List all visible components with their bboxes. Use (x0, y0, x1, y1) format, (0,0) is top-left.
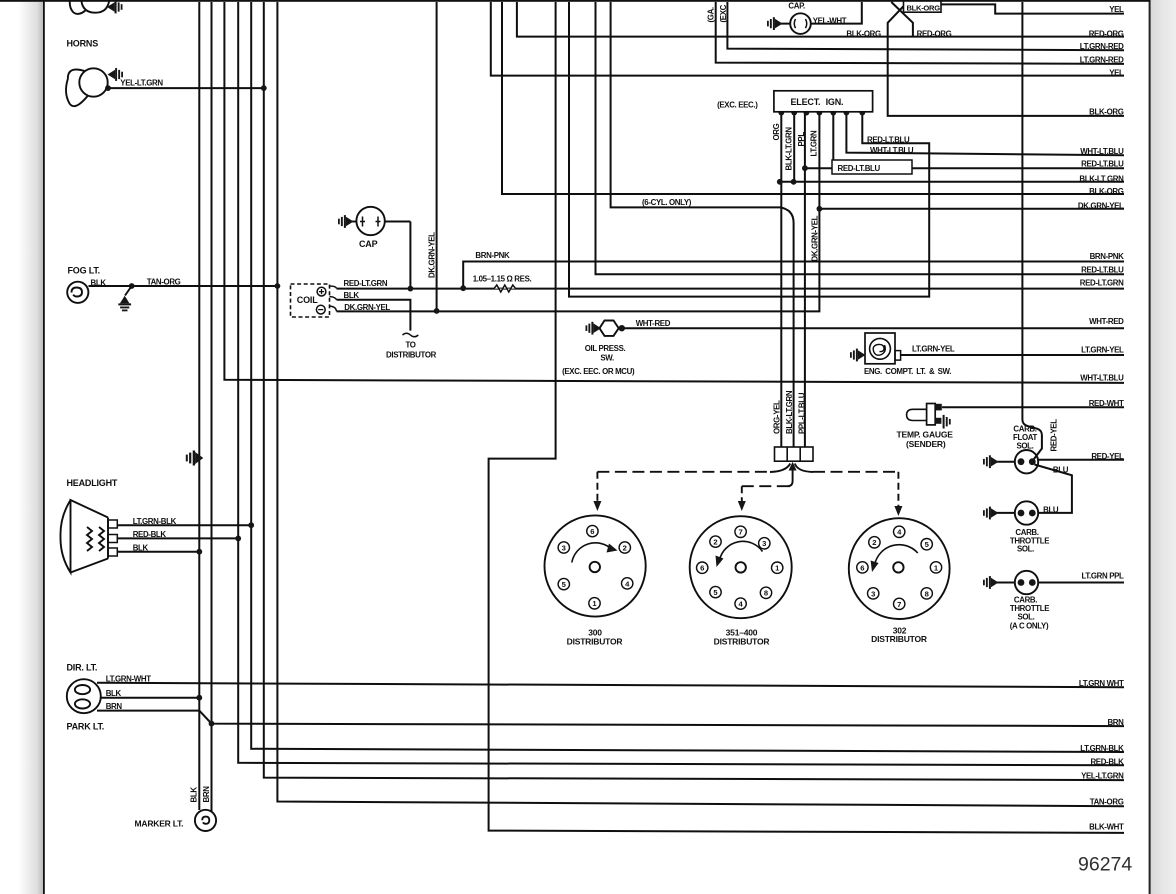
svg-text:BRN: BRN (202, 786, 211, 803)
svg-text:8: 8 (764, 589, 768, 598)
svg-text:BLK: BLK (91, 278, 107, 287)
svg-text:1.05–1.15 Ω RES.: 1.05–1.15 Ω RES. (473, 275, 532, 284)
svg-text:(EXC: (EXC (719, 4, 728, 22)
svg-text:BLK-ORG: BLK-ORG (1089, 187, 1124, 196)
svg-text:BRN-PNK: BRN-PNK (475, 251, 510, 260)
svg-text:BRN-PNK: BRN-PNK (1090, 252, 1125, 261)
svg-text:2: 2 (872, 538, 876, 547)
svg-text:ORG: ORG (772, 123, 781, 140)
svg-text:PPL-LT.BLU: PPL-LT.BLU (797, 392, 806, 434)
svg-text:3: 3 (562, 543, 566, 552)
svg-text:BRN: BRN (106, 702, 123, 711)
svg-text:BLK-LT.GRN: BLK-LT.GRN (785, 127, 794, 171)
svg-text:(EXC. EEC.): (EXC. EEC.) (717, 101, 758, 110)
svg-text:WHT-LT.BLU: WHT-LT.BLU (1080, 147, 1124, 156)
svg-text:TAN-ORG: TAN-ORG (147, 278, 181, 287)
svg-text:RED-ORG: RED-ORG (1089, 29, 1124, 38)
svg-text:RED-LT.GRN: RED-LT.GRN (1080, 279, 1124, 288)
svg-text:BLK-LT GRN: BLK-LT GRN (1079, 175, 1124, 184)
svg-text:3: 3 (762, 539, 766, 548)
svg-text:8: 8 (925, 589, 929, 598)
svg-text:RED-LT.BLU: RED-LT.BLU (1081, 265, 1124, 274)
svg-text:YEL-LT.GRN: YEL-LT.GRN (120, 79, 163, 88)
svg-text:COIL: COIL (297, 295, 318, 305)
svg-text:PARK LT.: PARK LT. (67, 721, 105, 731)
svg-text:OIL PRESS.: OIL PRESS. (585, 344, 626, 353)
svg-text:LT.GRN-YEL: LT.GRN-YEL (912, 344, 955, 353)
svg-text:YEL: YEL (1109, 5, 1124, 14)
svg-text:RED-YEL: RED-YEL (1091, 452, 1124, 461)
svg-text:DISTRIBUTOR: DISTRIBUTOR (871, 634, 927, 644)
svg-text:BLK: BLK (106, 689, 122, 698)
svg-text:DK.GRN-YEL: DK.GRN-YEL (428, 232, 437, 278)
svg-text:PPL: PPL (797, 132, 806, 147)
svg-text:TAN-ORG: TAN-ORG (1090, 797, 1124, 806)
svg-text:LT.GRN-RED: LT.GRN-RED (1080, 56, 1124, 65)
svg-text:DISTRIBUTOR: DISTRIBUTOR (567, 636, 623, 646)
svg-text:(EXC. EEC. OR MCU): (EXC. EEC. OR MCU) (562, 367, 635, 376)
svg-text:FOG LT.: FOG LT. (68, 265, 100, 275)
svg-text:CAP: CAP (359, 239, 378, 249)
svg-text:ELECT. IGN.: ELECT. IGN. (791, 97, 844, 107)
svg-text:LT.GRN-YEL: LT.GRN-YEL (1081, 346, 1124, 355)
svg-text:LT.GRN PPL: LT.GRN PPL (1082, 572, 1124, 581)
svg-text:TO: TO (405, 341, 415, 350)
svg-text:RED-LT.BLU: RED-LT.BLU (867, 135, 910, 144)
svg-text:YEL-LT.GRN: YEL-LT.GRN (1081, 771, 1124, 780)
svg-text:RED-LT.BLU: RED-LT.BLU (838, 164, 881, 173)
svg-text:CARB.: CARB. (1013, 424, 1036, 433)
svg-text:BLK: BLK (344, 291, 360, 300)
svg-text:6: 6 (860, 563, 864, 572)
svg-text:RED-BLK: RED-BLK (133, 530, 167, 539)
svg-text:BLK-LT.GRN: BLK-LT.GRN (785, 390, 794, 434)
svg-text:LT.GRN-BLK: LT.GRN-BLK (1080, 744, 1124, 753)
svg-text:DK.GRN-YEL: DK.GRN-YEL (1078, 202, 1124, 211)
svg-text:BLK: BLK (133, 543, 149, 552)
svg-text:DIR. LT.: DIR. LT. (67, 662, 98, 672)
svg-text:LT.GRN-WHT: LT.GRN-WHT (106, 674, 152, 683)
svg-text:2: 2 (623, 543, 627, 552)
svg-text:SW.: SW. (600, 353, 614, 362)
svg-text:2: 2 (713, 538, 717, 547)
svg-text:DISTRIBUTOR: DISTRIBUTOR (714, 636, 770, 646)
svg-text:3: 3 (871, 589, 875, 598)
svg-text:WHT-LT.BLU: WHT-LT.BLU (1080, 373, 1124, 382)
svg-text:DK.GRN-YEL: DK.GRN-YEL (344, 303, 390, 312)
svg-text:(GA.: (GA. (707, 7, 716, 22)
svg-text:RED-YEL: RED-YEL (1050, 419, 1059, 452)
svg-text:YEL-WHT: YEL-WHT (813, 16, 847, 25)
svg-text:6: 6 (590, 527, 594, 536)
svg-text:LT.GRN-BLK: LT.GRN-BLK (133, 517, 177, 526)
svg-text:HORNS: HORNS (67, 39, 99, 49)
svg-text:(A C ONLY): (A C ONLY) (1010, 621, 1049, 630)
svg-text:BLK-ORG: BLK-ORG (907, 4, 941, 13)
svg-text:CAP.: CAP. (788, 1, 805, 10)
svg-text:HEADLIGHT: HEADLIGHT (67, 478, 118, 488)
svg-text:7: 7 (738, 528, 742, 537)
svg-text:WHT-RED: WHT-RED (1089, 317, 1124, 326)
svg-text:BLK: BLK (190, 787, 199, 803)
svg-text:BLU: BLU (1043, 505, 1059, 514)
svg-text:ORG-YEL: ORG-YEL (773, 400, 782, 434)
svg-text:SOL.: SOL. (1016, 441, 1033, 450)
svg-text:(6-CYL. ONLY): (6-CYL. ONLY) (642, 198, 692, 207)
svg-text:6: 6 (700, 564, 704, 573)
svg-text:LT.GRN WHT: LT.GRN WHT (1079, 679, 1124, 688)
svg-text:YEL: YEL (1109, 68, 1124, 77)
svg-text:WHT-RED: WHT-RED (636, 319, 671, 328)
svg-text:THROTTLE: THROTTLE (1010, 604, 1049, 613)
svg-text:BLK-ORG: BLK-ORG (846, 29, 881, 38)
svg-text:RED-WHT: RED-WHT (1089, 399, 1124, 408)
svg-text:BRN: BRN (1107, 718, 1124, 727)
svg-text:RED-LT.GRN: RED-LT.GRN (344, 279, 388, 288)
svg-text:96274: 96274 (1078, 854, 1132, 876)
svg-text:(SENDER): (SENDER) (906, 439, 946, 449)
svg-text:RED-BLK: RED-BLK (1090, 757, 1124, 766)
svg-text:7: 7 (897, 600, 901, 609)
svg-text:LT.GRN: LT.GRN (809, 130, 818, 156)
svg-text:SOL.: SOL. (1017, 613, 1034, 622)
svg-text:BLU: BLU (1053, 465, 1069, 474)
svg-text:SOL.: SOL. (1017, 544, 1034, 553)
svg-text:RED-LT.BLU: RED-LT.BLU (1081, 159, 1124, 168)
svg-text:ENG. COMPT. LT. & SW.: ENG. COMPT. LT. & SW. (864, 367, 951, 376)
svg-text:DK.GRN-YEL: DK.GRN-YEL (810, 215, 819, 261)
svg-text:TEMP. GAUGE: TEMP. GAUGE (897, 429, 954, 439)
svg-text:RED-ORG: RED-ORG (917, 29, 952, 38)
svg-text:LT.GRN-RED: LT.GRN-RED (1080, 42, 1124, 51)
svg-text:BLK-ORG: BLK-ORG (1089, 108, 1124, 117)
svg-text:MARKER LT.: MARKER LT. (135, 818, 184, 828)
svg-text:WHT-LT.BLU: WHT-LT.BLU (870, 146, 914, 155)
svg-text:BLK-WHT: BLK-WHT (1089, 823, 1124, 832)
svg-text:DISTRIBUTOR: DISTRIBUTOR (386, 350, 437, 359)
